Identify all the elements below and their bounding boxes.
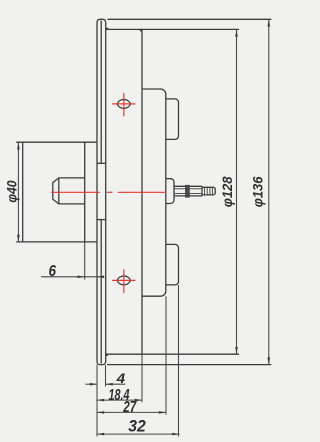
top terminal bump — [166, 99, 179, 139]
extension line flange left face — [96, 365, 98, 437]
arrow dim4 left — [90, 383, 97, 386]
arrow dim32 right — [172, 433, 179, 436]
shaft collar — [186, 185, 190, 197]
motor body (phi128) top edge + ext line — [106, 28, 239, 30]
arrow dim6 left — [78, 276, 85, 279]
arrow dim27 left — [97, 411, 104, 414]
extension line body right edge — [141, 354, 143, 402]
hub chamfer line — [58, 178, 60, 204]
phi40 cylinder left face — [22, 142, 24, 242]
centerline long dash right — [118, 191, 167, 193]
arrow dim32 left — [97, 433, 104, 436]
shaft section C outline — [189, 186, 202, 196]
svg-text:φ136: φ136 — [250, 176, 265, 207]
shaft shoulder — [201, 186, 203, 196]
rear housing protrusion — [142, 89, 166, 296]
svg-text:6: 6 — [48, 263, 56, 280]
flange center hole bottom edge — [97, 219, 106, 221]
flange center hole top edge — [97, 162, 106, 164]
dim 4 line right tail — [106, 383, 126, 385]
junction dot ext start top — [106, 28, 108, 30]
dim 18.4 line — [97, 399, 142, 401]
flange middle line upper segment — [100, 21, 102, 164]
svg-text:4: 4 — [116, 370, 126, 386]
svg-text:27: 27 — [123, 399, 138, 416]
arrow dim18.4 right — [135, 399, 142, 402]
junction dot body top — [140, 29, 142, 31]
bottom hole crosshair — [112, 269, 135, 293]
arrow phi40 top — [17, 142, 20, 149]
shaft section A spline lines — [174, 189, 186, 194]
extension line flange right face — [105, 365, 107, 386]
centerline short dash — [107, 191, 113, 193]
phi128 dimension line — [236, 29, 238, 354]
mounting flange plate (front view side, phi136) — [97, 19, 106, 364]
extension line housing right edge — [165, 296, 167, 414]
bottom screw hole lens — [117, 276, 131, 285]
junction dot body bottom — [106, 354, 108, 356]
arrow phi40 bottom — [17, 235, 20, 242]
shaft section C spline lines — [189, 189, 202, 194]
svg-text:φ40: φ40 — [5, 180, 20, 203]
dim 27 line — [97, 411, 166, 413]
phi40 cylinder joint line — [84, 142, 86, 242]
extension line bump right edge — [178, 285, 180, 437]
dimension lines — [18, 19, 268, 436]
dim 6 line — [41, 276, 104, 278]
top hole crosshair — [112, 93, 135, 117]
arrow phi128 bottom — [235, 347, 238, 354]
motor body right edge — [141, 29, 143, 354]
bottom terminal bump — [166, 244, 179, 285]
top screw hole lens — [117, 99, 131, 108]
threaded tip outline — [202, 187, 215, 195]
arrow dim6 right — [97, 276, 104, 279]
shaft bearing boss — [166, 179, 174, 204]
arrow dim27 right — [159, 411, 166, 414]
phi40 dimension line — [17, 142, 19, 242]
red center lines — [51, 93, 166, 293]
arrow dim18.4 left — [97, 399, 104, 402]
arrow phi136 bottom — [268, 357, 271, 364]
dimension texts — [5, 176, 266, 435]
dim 32 line — [97, 433, 180, 435]
flange bottom extension line (phi136) — [107, 364, 271, 366]
shaft section A outline — [174, 186, 186, 196]
front hub with chamfer — [53, 178, 85, 204]
arrowheads — [17, 19, 270, 435]
svg-text:φ128: φ128 — [220, 176, 235, 207]
flange top extension line (phi136) — [108, 18, 272, 20]
svg-text:32: 32 — [128, 418, 146, 436]
dim 6 extension line — [84, 242, 86, 280]
main horizontal centerline long dash left — [51, 191, 100, 193]
flange middle line lower segment — [100, 220, 102, 364]
phi40 front cylinder top edge + ext — [16, 141, 97, 143]
phi40 front cylinder bottom edge + ext — [16, 241, 97, 243]
thread crest lines — [205, 187, 213, 195]
arrow phi136 top — [268, 19, 271, 26]
arrow phi128 top — [235, 29, 238, 36]
phi136 dimension line — [268, 19, 270, 364]
arrow dim4 right — [106, 383, 113, 386]
motor body bottom edge + ext line — [106, 353, 239, 355]
dim 4 line left tail — [85, 383, 97, 385]
